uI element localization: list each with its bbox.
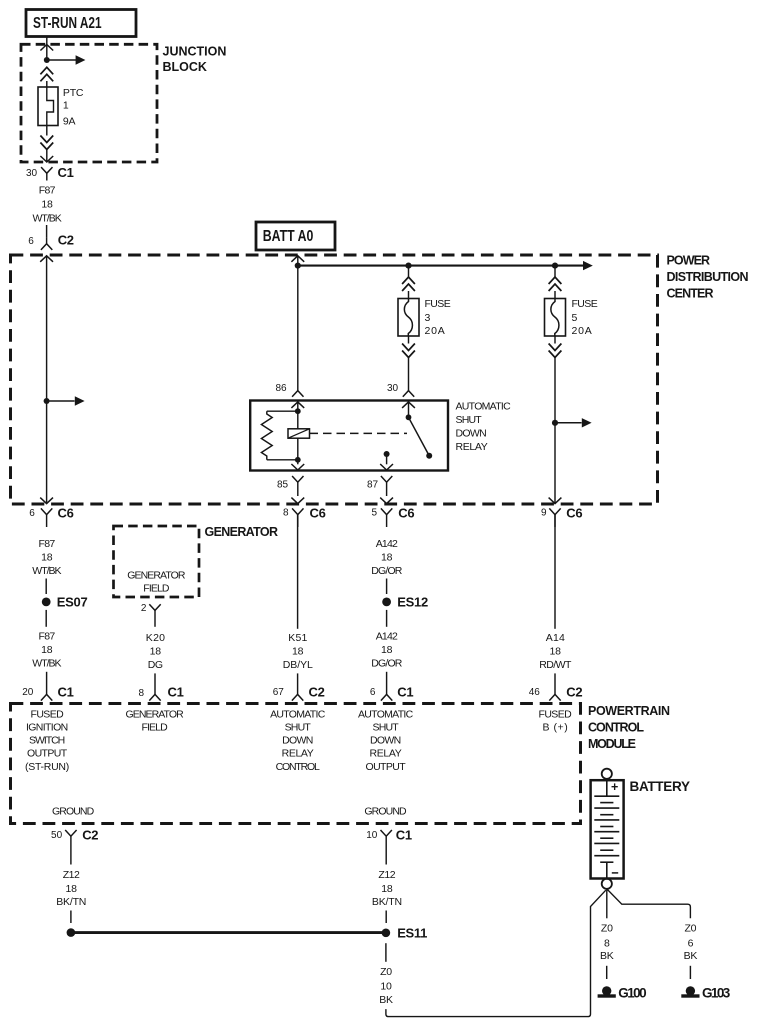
svg-text:JUNCTION: JUNCTION bbox=[163, 44, 227, 58]
connector chevron below PDC top border (BATT wire) bbox=[291, 256, 304, 262]
svg-text:OUTPUT: OUTPUT bbox=[366, 761, 407, 773]
splice ES12 bbox=[382, 594, 428, 609]
wire below fuse 3 bbox=[408, 336, 410, 344]
wire contact to pin 87 bbox=[386, 454, 388, 464]
svg-text:FUSE: FUSE bbox=[572, 298, 598, 310]
chevron at PDC bottom border (fuse 5 wire) bbox=[549, 498, 562, 504]
pin function: generator field bbox=[126, 708, 185, 733]
connector 30 C1 below junction block bbox=[26, 165, 74, 181]
svg-text:8: 8 bbox=[139, 688, 145, 699]
svg-text:20A: 20A bbox=[425, 325, 445, 337]
svg-text:C2: C2 bbox=[566, 684, 582, 699]
svg-text:18: 18 bbox=[41, 644, 53, 656]
generator label bbox=[205, 525, 279, 539]
chevron inside relay at pin 86 bbox=[291, 402, 304, 408]
relay coil element bbox=[288, 429, 310, 438]
svg-text:C1: C1 bbox=[168, 684, 184, 699]
svg-text:ES11: ES11 bbox=[397, 925, 427, 940]
connector 20 C1 at PCM bbox=[22, 684, 73, 700]
wire Z0 6 BK label bbox=[684, 922, 698, 962]
chevron at PDC bottom border (left wire) bbox=[40, 498, 53, 504]
svg-text:67: 67 bbox=[273, 687, 285, 698]
wire fuse 5 down to C6 bbox=[554, 358, 556, 504]
svg-text:85: 85 bbox=[277, 479, 289, 490]
svg-text:20: 20 bbox=[22, 687, 34, 698]
connector chevron below PDC top border (left wire) bbox=[40, 256, 53, 262]
connector 10 C1 below PCM bbox=[366, 828, 412, 865]
wire bus to fuse 3 bbox=[408, 266, 410, 277]
svg-text:SHUT: SHUT bbox=[373, 721, 400, 733]
wire below PTC bbox=[46, 126, 48, 136]
node junction dot on left wire bbox=[44, 398, 50, 404]
svg-text:BATT A0: BATT A0 bbox=[263, 227, 314, 245]
svg-text:F87: F87 bbox=[39, 630, 56, 642]
svg-text:18: 18 bbox=[41, 198, 53, 210]
generator enclosure bbox=[114, 526, 200, 597]
svg-text:9A: 9A bbox=[63, 116, 76, 128]
svg-text:RD/WT: RD/WT bbox=[539, 659, 572, 671]
svg-text:BLOCK: BLOCK bbox=[163, 60, 207, 74]
fuse 5 in-line connector (double chevron up) bbox=[549, 277, 562, 291]
wire from ST-RUN A21 into junction block bbox=[46, 37, 48, 61]
svg-text:8: 8 bbox=[604, 937, 610, 949]
node switch contact dot (pin 87) bbox=[384, 451, 390, 457]
svg-text:F87: F87 bbox=[39, 184, 56, 196]
PTC value labels bbox=[63, 87, 84, 128]
svg-text:6: 6 bbox=[688, 937, 694, 949]
chevron at PDC bottom border (pin 87 wire) bbox=[380, 498, 393, 504]
svg-text:PTC: PTC bbox=[63, 87, 84, 99]
node coil bottom dot bbox=[295, 457, 301, 463]
svg-text:Z12: Z12 bbox=[63, 869, 80, 881]
arrow to other circuits (junction block) bbox=[47, 55, 86, 64]
wire fuse 5 output down (A14) bbox=[554, 515, 556, 629]
svg-text:FIELD: FIELD bbox=[143, 583, 170, 595]
wire A142 18 DG/OR label (upper) bbox=[371, 538, 403, 577]
svg-text:SWITCH: SWITCH bbox=[29, 734, 65, 746]
node bus dot at fuse 3 tap bbox=[405, 263, 411, 269]
wire Z12 18 BK/TN label (left) bbox=[56, 869, 86, 908]
pin function: fused ignition switch output (st-run) bbox=[25, 708, 69, 773]
svg-text:18: 18 bbox=[550, 645, 562, 657]
svg-text:WT/BK: WT/BK bbox=[33, 212, 62, 224]
chevron at PDC bottom border (pin 85 wire) bbox=[291, 498, 304, 504]
wire pin 86 to coil node bbox=[297, 402, 299, 411]
wire to connector 46 C2 bbox=[554, 673, 556, 694]
wire to junction block bottom border bbox=[46, 150, 48, 162]
wire to G103 bbox=[689, 966, 691, 979]
connector 6 C6 below PDC bbox=[29, 506, 73, 527]
svg-text:BATTERY: BATTERY bbox=[630, 779, 690, 794]
battery label bbox=[630, 779, 690, 794]
wire below fuse 5 bbox=[554, 336, 556, 344]
wire Z0 8 BK label bbox=[600, 922, 614, 962]
svg-text:Z0: Z0 bbox=[380, 966, 392, 978]
powertrain control module label bbox=[588, 704, 670, 751]
chevron inside relay at pin 85 bbox=[291, 464, 304, 470]
svg-text:BK: BK bbox=[684, 950, 698, 962]
svg-text:FUSED: FUSED bbox=[31, 708, 65, 720]
node junction dot on fuse 5 output bbox=[552, 420, 558, 426]
wire coil box to coil bottom node bbox=[297, 438, 299, 460]
wire to connector 67 C2 bbox=[297, 673, 299, 694]
node coil top dot bbox=[295, 408, 301, 414]
svg-text:ST-RUN A21: ST-RUN A21 bbox=[33, 13, 102, 31]
wire to G100 bbox=[606, 966, 608, 979]
svg-text:G100: G100 bbox=[618, 985, 646, 1000]
node BATT A0 (source box) bbox=[256, 222, 335, 250]
svg-text:GENERATOR: GENERATOR bbox=[205, 525, 279, 539]
wire into PTC bbox=[46, 81, 48, 87]
svg-text:86: 86 bbox=[275, 383, 287, 394]
connector 8 C1 at PCM bbox=[139, 684, 184, 700]
node switch pivot dot bbox=[406, 414, 412, 420]
svg-text:10: 10 bbox=[366, 830, 378, 841]
powertrain control module enclosure bbox=[11, 704, 581, 824]
svg-text:30: 30 bbox=[387, 383, 399, 394]
in-line connector double chevron below PTC bbox=[40, 136, 53, 150]
svg-text:IGNITION: IGNITION bbox=[26, 721, 68, 733]
svg-text:18: 18 bbox=[381, 551, 393, 563]
svg-text:Z0: Z0 bbox=[601, 922, 613, 934]
svg-text:C2: C2 bbox=[309, 684, 325, 699]
svg-text:K51: K51 bbox=[288, 632, 307, 644]
wire K20 18 DG label bbox=[146, 632, 165, 671]
connector chevron at junction block top border bbox=[40, 45, 53, 51]
ground G100 bbox=[598, 985, 647, 1000]
svg-text:DG/OR: DG/OR bbox=[371, 657, 403, 669]
fuse 3 in-line connector (double chevron down) bbox=[402, 344, 415, 358]
battery feed bus with arrow bbox=[298, 261, 593, 270]
connector 46 C2 at PCM bbox=[529, 684, 583, 700]
svg-text:Z0: Z0 bbox=[684, 922, 696, 934]
svg-text:K20: K20 bbox=[146, 632, 165, 644]
svg-text:DG/OR: DG/OR bbox=[371, 565, 403, 577]
power distribution center enclosure bbox=[11, 255, 658, 504]
svg-text:A14: A14 bbox=[546, 632, 565, 644]
svg-text:87: 87 bbox=[367, 479, 379, 490]
svg-text:ES07: ES07 bbox=[57, 594, 88, 609]
svg-text:BK/TN: BK/TN bbox=[56, 896, 86, 908]
svg-text:20A: 20A bbox=[572, 325, 592, 337]
svg-text:SHUT: SHUT bbox=[285, 721, 312, 733]
svg-text:C6: C6 bbox=[566, 506, 582, 521]
connector 6 C2 at PDC top border bbox=[28, 233, 74, 250]
node junction dot inside junction block bbox=[44, 57, 50, 63]
power distribution center label bbox=[667, 253, 749, 300]
svg-text:50: 50 bbox=[51, 830, 63, 841]
fuse 5 in-line connector (double chevron down) bbox=[549, 344, 562, 358]
svg-text:CONTROL: CONTROL bbox=[276, 761, 320, 773]
connector 2 below generator bbox=[141, 603, 161, 627]
chevron inside relay at pin 87 bbox=[380, 464, 393, 470]
relay pin 87 connector below box bbox=[367, 476, 392, 496]
connector chevron at junction block bottom border bbox=[40, 156, 53, 162]
svg-text:CENTER: CENTER bbox=[667, 286, 714, 300]
wire to connector 20 C1 bbox=[46, 672, 48, 695]
svg-text:C2: C2 bbox=[58, 233, 74, 248]
svg-text:5: 5 bbox=[572, 312, 578, 324]
arrow to other circuits (fuse 5 output) bbox=[555, 418, 592, 427]
pin function: automatic shut down relay control bbox=[270, 708, 326, 773]
arrow to other circuits (PDC left) bbox=[47, 396, 85, 405]
wire battery negative to G100 bbox=[606, 889, 608, 918]
svg-text:DOWN: DOWN bbox=[282, 734, 313, 746]
splice ES07 bbox=[42, 594, 88, 609]
wire F87 18 WT/BK label (below C6) bbox=[32, 538, 61, 577]
svg-text:18: 18 bbox=[150, 645, 162, 657]
fuse F5 20A bbox=[545, 299, 566, 337]
pin function: automatic shut down relay output bbox=[358, 708, 414, 773]
svg-text:DOWN: DOWN bbox=[456, 427, 487, 439]
svg-text:A142: A142 bbox=[376, 538, 398, 550]
wire bus to fuse 5 bbox=[554, 266, 556, 277]
wire to connector 6 C1 bbox=[386, 672, 388, 695]
svg-text:C1: C1 bbox=[58, 165, 74, 180]
wire F87 18 WT/BK label (lower) bbox=[32, 630, 61, 669]
battery positive terminal bbox=[602, 769, 612, 779]
svg-text:AUTOMATIC: AUTOMATIC bbox=[270, 708, 326, 720]
svg-text:18: 18 bbox=[292, 645, 304, 657]
connector 8 C6 below PDC bbox=[283, 506, 326, 527]
node bus dot at fuse 5 tap bbox=[552, 263, 558, 269]
fuse 3 labels bbox=[425, 298, 451, 337]
svg-text:18: 18 bbox=[381, 883, 393, 895]
automatic shut down relay box bbox=[250, 401, 448, 471]
svg-text:DOWN: DOWN bbox=[370, 734, 401, 746]
wire segment to C2 bbox=[46, 225, 48, 238]
svg-text:6: 6 bbox=[29, 508, 35, 519]
wire A14 18 RD/WT label bbox=[539, 632, 572, 671]
svg-text:18: 18 bbox=[66, 883, 78, 895]
junction block enclosure bbox=[21, 44, 157, 162]
svg-text:8: 8 bbox=[283, 507, 289, 518]
connector 6 C1 at PCM bbox=[370, 684, 414, 700]
wire K51 18 DB/YL label bbox=[283, 632, 313, 671]
svg-text:30: 30 bbox=[26, 168, 38, 179]
svg-text:(ST-RUN): (ST-RUN) bbox=[25, 761, 69, 773]
svg-text:GENERATOR: GENERATOR bbox=[127, 569, 186, 581]
svg-text:WT/BK: WT/BK bbox=[32, 657, 61, 669]
svg-text:18: 18 bbox=[41, 551, 53, 563]
wire into fuse 3 bbox=[408, 291, 410, 299]
wire A142 18 DG/OR label (lower) bbox=[371, 630, 403, 669]
wire to splice ES12 bbox=[386, 579, 388, 595]
wire battery negative to G103 bbox=[607, 889, 691, 918]
svg-text:RELAY: RELAY bbox=[282, 747, 314, 759]
svg-text:C1: C1 bbox=[397, 684, 413, 699]
wire coil top to coil box bbox=[297, 411, 299, 429]
fuse 3 in-line connector (double chevron up) bbox=[402, 277, 415, 291]
svg-text:10: 10 bbox=[380, 980, 392, 992]
switch blade bbox=[409, 417, 433, 459]
svg-text:5: 5 bbox=[372, 507, 378, 518]
linkage dashed line to switch bbox=[310, 432, 408, 434]
wire below ES11 bbox=[385, 943, 387, 962]
wire to splice ES11 bbox=[385, 911, 387, 924]
wire pin 30 to switch pivot bbox=[408, 402, 410, 417]
svg-text:C6: C6 bbox=[398, 506, 414, 521]
ground G103 bbox=[681, 985, 730, 1000]
relay pin 30 connector bbox=[387, 383, 414, 397]
svg-text:C1: C1 bbox=[396, 828, 412, 843]
pin function: fused B(+) bbox=[539, 708, 573, 733]
wire (fused ign feed) down through PDC bbox=[46, 256, 48, 504]
in-line connector double chevron above PTC bbox=[40, 67, 53, 81]
wire below ES12 bbox=[386, 610, 388, 627]
wire heavy link to ES11 bbox=[71, 931, 386, 934]
connector 50 C2 below PCM bbox=[51, 828, 98, 865]
svg-text:FUSE: FUSE bbox=[425, 298, 451, 310]
pin function: ground (left) bbox=[52, 805, 95, 817]
svg-text:GROUND: GROUND bbox=[52, 805, 95, 817]
wire into fuse 5 bbox=[554, 291, 556, 299]
connector 9 C6 below PDC bbox=[541, 506, 582, 527]
svg-text:2: 2 bbox=[141, 603, 147, 614]
svg-text:FIELD: FIELD bbox=[142, 721, 169, 733]
svg-text:RELAY: RELAY bbox=[456, 441, 488, 453]
connector 5 C6 below PDC bbox=[372, 506, 415, 527]
svg-text:RELAY: RELAY bbox=[370, 747, 402, 759]
wire below ES07 bbox=[45, 610, 47, 627]
svg-text:SHUT: SHUT bbox=[456, 414, 483, 426]
svg-text:ES12: ES12 bbox=[397, 594, 428, 609]
relay pin 86 connector bbox=[275, 383, 303, 397]
svg-text:DISTRIBUTION: DISTRIBUTION bbox=[667, 270, 749, 284]
node ST-RUN A21 (source box) bbox=[26, 10, 136, 37]
svg-text:BK: BK bbox=[379, 994, 393, 1006]
wire ES11 return to battery negative bbox=[386, 890, 606, 1016]
junction block label bbox=[163, 44, 227, 74]
node splice dot (left) bbox=[67, 928, 76, 937]
svg-text:POWER: POWER bbox=[667, 253, 711, 267]
splice ES11 bbox=[382, 925, 428, 940]
wire Z0 10 BK label bbox=[379, 966, 393, 1006]
svg-text:3: 3 bbox=[425, 312, 431, 324]
svg-text:C6: C6 bbox=[58, 506, 74, 521]
svg-text:MODULE: MODULE bbox=[588, 737, 636, 751]
fuse 5 labels bbox=[572, 298, 598, 337]
svg-text:POWERTRAIN: POWERTRAIN bbox=[588, 704, 670, 718]
svg-text:DB/YL: DB/YL bbox=[283, 659, 313, 671]
svg-text:CONTROL: CONTROL bbox=[588, 721, 644, 735]
wire to splice ES07 bbox=[45, 579, 47, 595]
svg-text:GROUND: GROUND bbox=[364, 805, 407, 817]
svg-text:Z12: Z12 bbox=[378, 869, 395, 881]
svg-text:WT/BK: WT/BK bbox=[32, 565, 61, 577]
svg-text:BK: BK bbox=[600, 950, 614, 962]
svg-text:FUSED: FUSED bbox=[539, 708, 573, 720]
svg-text:6: 6 bbox=[28, 236, 34, 247]
battery BATTERY bbox=[591, 779, 624, 879]
svg-text:+: + bbox=[611, 780, 618, 794]
relay label bbox=[456, 400, 512, 453]
pin function: ground (right) bbox=[364, 805, 407, 817]
svg-text:1: 1 bbox=[63, 100, 69, 112]
svg-text:DG: DG bbox=[148, 659, 163, 671]
svg-text:A142: A142 bbox=[376, 630, 398, 642]
wire F87 18 WT/BK label (upper) bbox=[33, 184, 62, 224]
svg-text:46: 46 bbox=[529, 687, 541, 698]
generator field label (inside) bbox=[127, 569, 186, 594]
svg-text:C2: C2 bbox=[82, 828, 98, 843]
fuse F3 20A bbox=[398, 299, 419, 337]
wire BATT A0 to bus bbox=[297, 256, 299, 266]
svg-text:18: 18 bbox=[381, 644, 393, 656]
battery negative terminal bbox=[602, 879, 612, 889]
wire fuse 3 to relay pin 30 bbox=[408, 358, 410, 391]
svg-text:AUTOMATIC: AUTOMATIC bbox=[456, 400, 512, 412]
svg-text:GENERATOR: GENERATOR bbox=[126, 708, 185, 720]
wire BATT bus down to relay pin 86 bbox=[297, 266, 299, 391]
svg-text:F87: F87 bbox=[39, 538, 56, 550]
svg-text:G103: G103 bbox=[702, 985, 731, 1000]
relay pin 85 connector below box bbox=[277, 476, 304, 496]
svg-text:6: 6 bbox=[370, 687, 376, 698]
svg-text:C1: C1 bbox=[58, 684, 74, 699]
svg-text:9: 9 bbox=[541, 507, 547, 518]
svg-text:OUTPUT: OUTPUT bbox=[27, 747, 68, 759]
chevron inside relay at pin 30 bbox=[402, 402, 415, 408]
wire Z12 18 BK/TN label (right) bbox=[372, 869, 402, 908]
resistor (parallel with coil) bbox=[261, 411, 297, 460]
connector 67 C2 at PCM bbox=[273, 684, 325, 700]
svg-text:AUTOMATIC: AUTOMATIC bbox=[358, 708, 414, 720]
wire to splice (left ground) bbox=[70, 911, 72, 924]
wire pin 85 down (K51) bbox=[297, 515, 299, 629]
wire to connector 8 C1 bbox=[154, 673, 156, 694]
PTC 1 9A circuit breaker bbox=[38, 87, 58, 126]
svg-text:BK/TN: BK/TN bbox=[372, 896, 402, 908]
svg-text:C6: C6 bbox=[310, 506, 326, 521]
svg-text:B (+): B (+) bbox=[543, 721, 568, 733]
node bus junction dot at BATT feed bbox=[295, 263, 301, 269]
wire coil bottom to pin 85 bbox=[297, 460, 299, 465]
